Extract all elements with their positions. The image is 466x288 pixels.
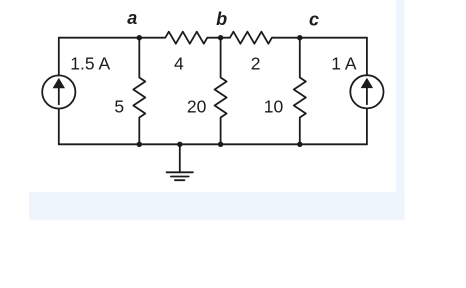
- node b junction dot (top): [218, 35, 223, 40]
- svg-text:10: 10: [264, 96, 284, 116]
- node a junction dot (top): [137, 35, 142, 40]
- svg-text:20: 20: [187, 96, 207, 116]
- wire right branch lower: [366, 109, 368, 145]
- current source I1 arrow head: [53, 78, 65, 88]
- current source I1 circle: [42, 75, 75, 108]
- wire bottom rail: [59, 143, 367, 145]
- wire top rail with resistors 4 and 2: [59, 32, 367, 44]
- resistor R5 (5 ohm, node a column): [133, 38, 145, 145]
- current source I2 circle: [350, 75, 383, 108]
- ground stem: [179, 144, 181, 172]
- svg-text:a: a: [127, 8, 137, 28]
- wire left branch lower: [58, 109, 60, 145]
- svg-text:4: 4: [174, 54, 184, 74]
- resistor R20 (20 ohm, node b column): [215, 38, 227, 145]
- junction dot bottom at ground: [177, 142, 182, 147]
- current source I1 arrow shaft: [58, 88, 60, 105]
- svg-text:b: b: [216, 9, 227, 29]
- junction dot bottom below node b: [218, 142, 223, 147]
- ground bars: [167, 172, 193, 180]
- wire right branch upper: [366, 38, 368, 75]
- background panel (light blue strips): [396, 0, 405, 220]
- svg-text:2: 2: [251, 54, 261, 74]
- svg-text:1.5 A: 1.5 A: [70, 54, 110, 74]
- current source I2 arrow shaft: [366, 87, 368, 104]
- node c junction dot (top): [297, 35, 302, 40]
- svg-text:c: c: [309, 10, 319, 30]
- junction dot bottom below node a: [137, 142, 142, 147]
- wire left branch upper: [58, 38, 60, 76]
- svg-text:1 A: 1 A: [331, 53, 357, 73]
- svg-text:5: 5: [114, 96, 124, 116]
- resistor R10 (10 ohm, node c column): [294, 38, 306, 145]
- junction dot bottom below node c: [297, 142, 302, 147]
- current source I2 arrow head: [361, 78, 373, 88]
